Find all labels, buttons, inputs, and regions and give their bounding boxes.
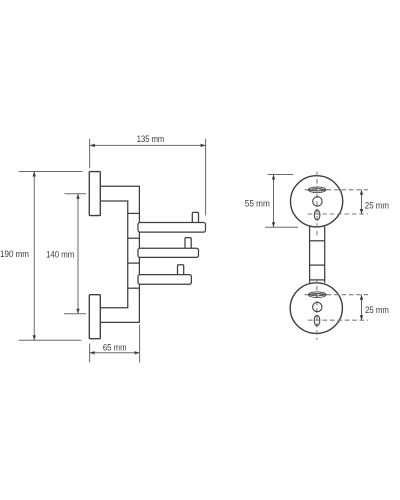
dim 190 line	[33, 172, 35, 341]
top arm inner edge + post left edge + bottom arm top edge	[100, 201, 127, 308]
dim 135 ext right	[205, 139, 207, 216]
slot top outer	[308, 187, 326, 193]
hook arm 2	[138, 248, 199, 257]
centerline hole top	[308, 213, 369, 215]
svg-text:190 mm: 190 mm	[0, 248, 29, 259]
svg-text:25 mm: 25 mm	[365, 199, 389, 210]
centerline slot bottom	[305, 294, 369, 296]
arrow 65 left	[90, 351, 95, 354]
connecting bar left edge	[309, 227, 311, 283]
centerline slot top	[305, 189, 369, 191]
post divider 1	[128, 212, 140, 214]
dim 135 line	[90, 144, 206, 146]
dim 190 tick top	[19, 171, 83, 173]
wall plate bottom	[89, 295, 100, 339]
dashed centerlines	[305, 172, 369, 340]
post divider 3	[128, 262, 140, 264]
dim 65 line	[90, 352, 140, 354]
arrow 25 bottom upper	[360, 295, 363, 300]
arrow 135 left	[90, 144, 95, 147]
svg-text:55 mm: 55 mm	[245, 197, 270, 208]
bar divider 2	[310, 264, 325, 266]
oval hole bottom	[314, 315, 320, 325]
screw hole bottom	[313, 302, 322, 311]
arrow 140 top	[76, 194, 79, 199]
arrow 140 bottom	[76, 309, 79, 314]
dim 55 line	[273, 175, 275, 228]
mounting plate circle bottom	[290, 283, 342, 334]
arrow 190 top	[33, 172, 36, 177]
slot bottom outer	[308, 292, 326, 298]
hook arm 1	[138, 223, 206, 233]
arrow 55 bottom	[272, 222, 275, 227]
dim 140 line	[77, 194, 79, 314]
bar divider 1	[310, 240, 325, 242]
centerline vertical bottom	[316, 279, 318, 340]
dim 140 tick top	[64, 193, 86, 195]
dim 65 ext right	[139, 325, 141, 363]
arrow 190 bottom	[33, 335, 36, 340]
arrow 65 right	[135, 351, 140, 354]
post divider 2	[128, 237, 140, 239]
bar divider 3	[310, 279, 325, 281]
dim 25 bottom line	[361, 295, 363, 321]
peg 1	[192, 212, 198, 224]
slot top lens	[308, 189, 326, 191]
arrow 25 bottom lower	[360, 315, 363, 320]
dim 135 ext left	[89, 139, 91, 169]
peg 2	[185, 238, 191, 250]
dim 55 ext bottom	[265, 226, 298, 228]
arrow 25 top lower	[360, 209, 363, 214]
dim 190 tick bottom	[19, 339, 82, 341]
dim 25 top line	[361, 190, 363, 214]
mounting plate circle top	[291, 176, 343, 227]
post divider 4	[128, 287, 140, 289]
hook arm 3	[138, 275, 191, 285]
centerline hole bottom	[308, 319, 368, 321]
centerline vertical top	[316, 172, 318, 238]
dim 140 tick bottom	[64, 313, 86, 315]
svg-text:65 mm: 65 mm	[103, 342, 127, 353]
svg-text:135 mm: 135 mm	[137, 133, 165, 144]
slot bottom lens	[308, 294, 326, 296]
connecting bar right edge	[324, 227, 326, 283]
wall plate top	[89, 172, 100, 216]
dim 65 ext left	[89, 344, 91, 363]
svg-text:25 mm: 25 mm	[365, 304, 389, 315]
top arm outer edge + post right edge + bottom arm bottom edge	[100, 186, 139, 322]
oval hole top	[314, 210, 320, 220]
arrow 55 top	[272, 175, 275, 180]
svg-text:140 mm: 140 mm	[46, 248, 74, 259]
screw hole top	[313, 197, 322, 206]
peg 3	[178, 265, 184, 277]
arrow 135 right	[201, 144, 206, 147]
arrow 25 top upper	[360, 190, 363, 195]
dim 55 ext top	[268, 174, 294, 176]
